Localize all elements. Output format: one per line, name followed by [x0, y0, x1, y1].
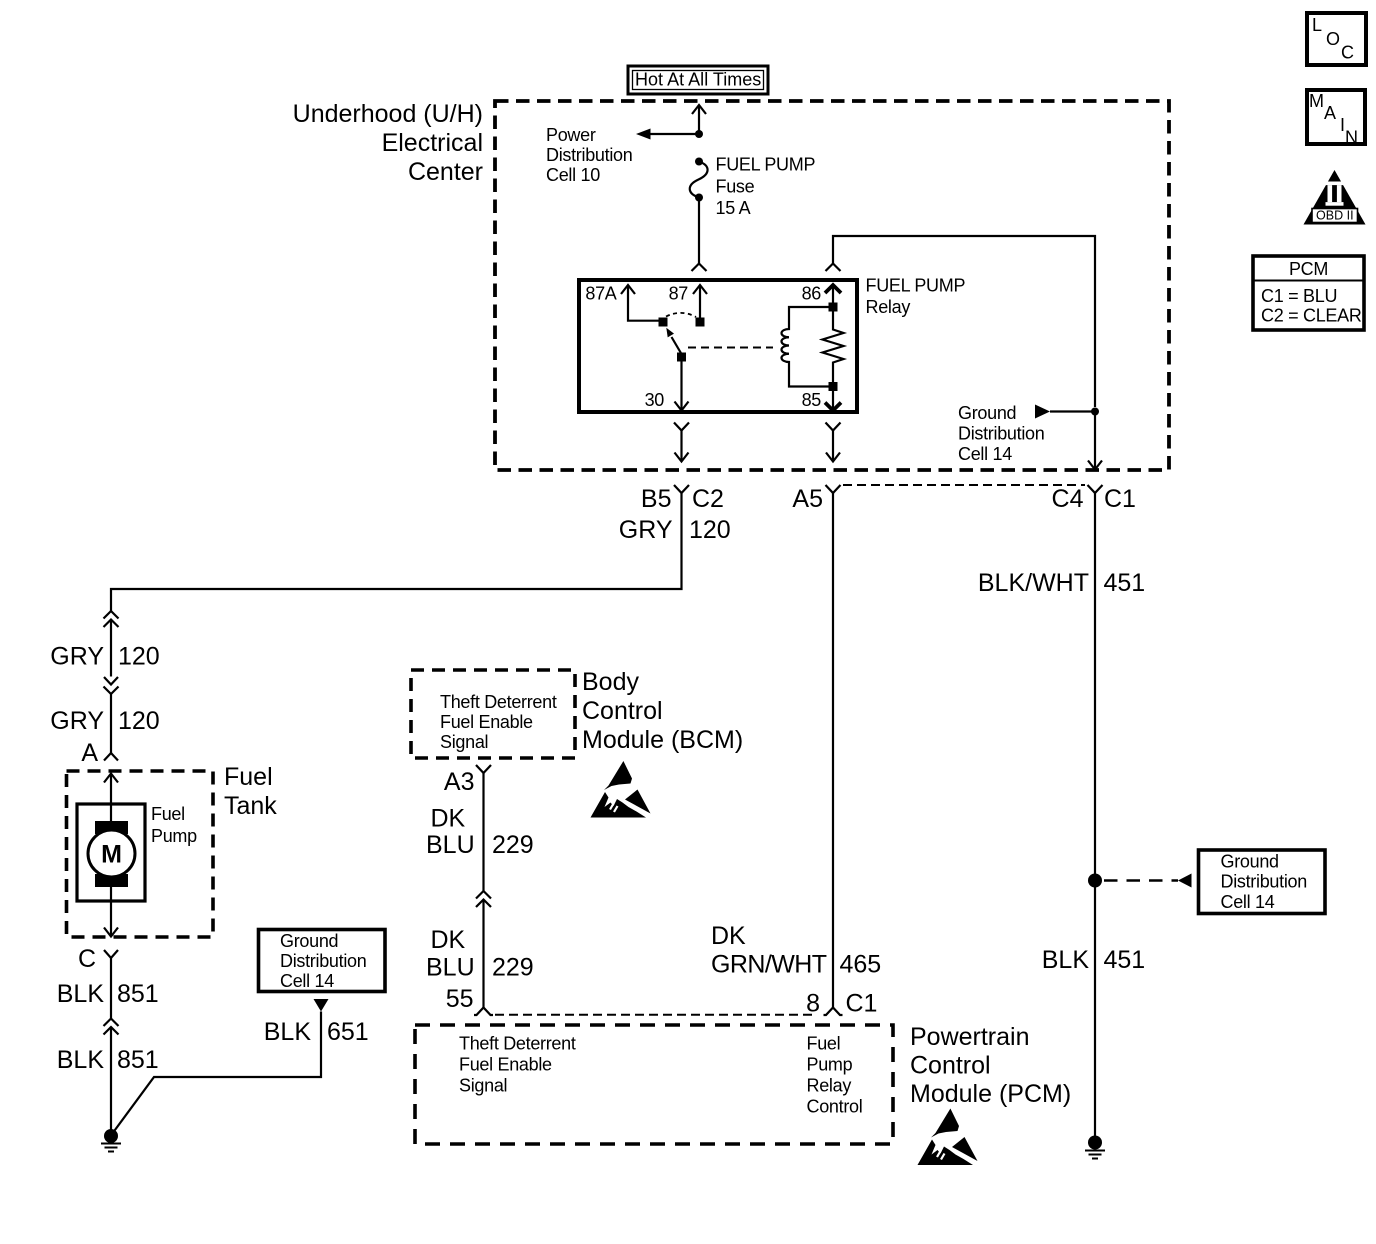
- connector row dashed line (PCM top): [495, 1014, 812, 1016]
- svg-text:30: 30: [645, 390, 665, 410]
- svg-text:651: 651: [327, 1018, 369, 1046]
- relay pin 86: [802, 284, 841, 304]
- svg-text:15 A: 15 A: [716, 198, 751, 218]
- svg-text:Fuel: Fuel: [807, 1034, 841, 1054]
- connector 8 / C1 (PCM): [806, 990, 877, 1018]
- wire: BLK 651 to pump ground: [112, 1012, 321, 1135]
- svg-text:Distribution: Distribution: [280, 951, 366, 971]
- svg-text:55: 55: [446, 985, 474, 1013]
- node: ground distribution junction: [1091, 408, 1099, 416]
- svg-text:120: 120: [118, 707, 160, 735]
- wire: tank feed arrow (into tank): [104, 774, 118, 822]
- box: BCM Theft Deterrent Fuel Enable Signal (dashed): [411, 670, 575, 758]
- arrow: ground distribution feed: [1035, 405, 1092, 419]
- svg-text:BLU: BLU: [426, 831, 475, 859]
- svg-text:C1 = BLU: C1 = BLU: [1261, 286, 1337, 306]
- svg-text:DK: DK: [431, 926, 466, 954]
- svg-text:C2: C2: [692, 485, 724, 513]
- svg-text:Control: Control: [582, 697, 663, 725]
- svg-text:Relay: Relay: [866, 297, 911, 317]
- wire: DK GRN/WHT 465 (A5 to PCM pin 8): [832, 493, 834, 1008]
- svg-text:Distribution: Distribution: [1221, 872, 1307, 892]
- connector row dashed line (A5 to C4): [843, 484, 1085, 486]
- splice break (BLK 851): [104, 1019, 119, 1137]
- svg-text:A5: A5: [792, 485, 823, 513]
- svg-text:FUEL PUMP: FUEL PUMP: [866, 276, 966, 296]
- svg-text:BLK/WHT: BLK/WHT: [978, 569, 1089, 597]
- arrow: from left GD box down: [314, 999, 329, 1012]
- splice break (DK BLU 229): [476, 891, 491, 1008]
- label: GRY 120 (left column upper): [50, 643, 159, 671]
- svg-text:87A: 87A: [585, 284, 616, 304]
- svg-text:Cell 14: Cell 14: [958, 444, 1012, 464]
- label: BLK 851 (upper): [57, 980, 159, 1008]
- fuse: FUEL PUMP Fuse 15 A: [690, 158, 708, 202]
- label: Fuel Pump: [151, 804, 197, 846]
- wire: junction down to C4 connector: [1088, 412, 1102, 470]
- svg-text:Ground: Ground: [958, 403, 1016, 423]
- svg-text:C4: C4: [1052, 485, 1084, 513]
- wire: pump to tank bottom (arrow down): [104, 887, 118, 937]
- svg-text:Cell 14: Cell 14: [280, 971, 334, 991]
- svg-text:85: 85: [802, 390, 822, 410]
- svg-text:Fuel Enable: Fuel Enable: [440, 712, 533, 732]
- wire: DK BLU 229 upper: [482, 773, 484, 891]
- svg-text:Powertrain: Powertrain: [910, 1023, 1030, 1051]
- svg-text:Cell 14: Cell 14: [1221, 892, 1275, 912]
- fuel pump box: [77, 804, 145, 901]
- svg-text:PCM: PCM: [1289, 259, 1328, 279]
- svg-text:Module (BCM): Module (BCM): [582, 726, 743, 754]
- label: GRY 120 (below B5): [619, 516, 731, 544]
- connector A (fuel tank): [81, 739, 118, 767]
- label: DK BLU 229 (upper): [426, 805, 534, 860]
- label: Ground Distribution Cell 14 (inside U/H box): [958, 403, 1044, 464]
- label: Powertrain Control Module (PCM): [910, 1023, 1071, 1108]
- svg-text:C1: C1: [1104, 485, 1136, 513]
- svg-text:DK: DK: [711, 922, 746, 950]
- svg-text:Theft Deterrent: Theft Deterrent: [459, 1034, 576, 1054]
- box: Hot At All Times: [628, 66, 768, 94]
- label: Underhood (U/H) Electrical Center: [293, 100, 483, 186]
- relay switch link (dashed line to coil): [688, 347, 773, 349]
- svg-text:L: L: [1312, 15, 1322, 35]
- connector C4 / C1: [1052, 485, 1136, 513]
- wire: relay pin 85 down to A5: [826, 423, 841, 462]
- wire: fuse to relay pin 87: [692, 198, 707, 272]
- label: Power Distribution Cell 10: [546, 125, 632, 185]
- symbol: LOC: [1307, 13, 1366, 65]
- svg-text:M: M: [101, 841, 122, 869]
- connector A5: [792, 485, 840, 513]
- label: FUEL PUMP Relay: [866, 276, 966, 318]
- svg-text:120: 120: [689, 516, 731, 544]
- wire: GRY 120 from B5 down-left: [111, 493, 682, 611]
- svg-text:Tank: Tank: [224, 792, 277, 820]
- svg-text:86: 86: [802, 284, 822, 304]
- box: Ground Distribution Cell 14 (left): [259, 930, 386, 992]
- svg-text:A3: A3: [444, 768, 475, 796]
- svg-text:GRY: GRY: [50, 643, 104, 671]
- inline connector (GRY 120): [104, 677, 119, 748]
- svg-text:Body: Body: [582, 668, 639, 696]
- svg-text:87: 87: [669, 284, 689, 304]
- svg-text:Fuel: Fuel: [151, 804, 185, 824]
- svg-text:Fuel Enable: Fuel Enable: [459, 1055, 552, 1075]
- label: DK GRN/WHT 465: [711, 922, 881, 979]
- svg-text:BLK: BLK: [57, 1046, 105, 1074]
- relay pin 85: [802, 390, 841, 411]
- svg-text:M: M: [1309, 91, 1324, 111]
- relay coil: [782, 307, 830, 387]
- svg-text:229: 229: [492, 831, 534, 859]
- label: FUEL PUMP Fuse 15 A: [716, 155, 816, 219]
- svg-text:A: A: [1324, 103, 1336, 123]
- svg-text:851: 851: [117, 1046, 159, 1074]
- svg-text:851: 851: [117, 980, 159, 1008]
- svg-text:GRY: GRY: [50, 707, 104, 735]
- svg-text:Distribution: Distribution: [958, 424, 1044, 444]
- svg-text:Ground: Ground: [280, 931, 338, 951]
- label: Fuel Tank: [224, 763, 277, 820]
- label: BLK/WHT 451: [978, 569, 1145, 597]
- svg-text:Control: Control: [807, 1097, 863, 1117]
- svg-text:Signal: Signal: [440, 732, 488, 752]
- box: Underhood (U/H) Electrical Center (dashed): [495, 101, 1169, 470]
- splice break (GRY 120 upper): [104, 611, 119, 677]
- svg-text:C1: C1: [846, 990, 878, 1018]
- svg-text:Ground: Ground: [1221, 852, 1279, 872]
- dashed feed to Ground Distribution Cell 14 (right): [1104, 874, 1192, 888]
- connector A3 (BCM): [444, 765, 491, 796]
- svg-text:Fuse: Fuse: [716, 177, 755, 197]
- svg-text:Signal: Signal: [459, 1076, 507, 1096]
- svg-text:Pump: Pump: [807, 1055, 853, 1075]
- symbol: MAIN: [1307, 90, 1365, 148]
- svg-text:8: 8: [806, 990, 820, 1018]
- svg-text:BLK: BLK: [1042, 946, 1090, 974]
- svg-text:465: 465: [840, 951, 882, 979]
- svg-text:Electrical: Electrical: [382, 129, 483, 157]
- svg-text:I: I: [1340, 115, 1345, 135]
- connector B5 / C2: [641, 485, 724, 513]
- svg-text:O: O: [1326, 29, 1340, 49]
- node: fuse feed junction: [695, 130, 703, 138]
- svg-text:120: 120: [118, 643, 160, 671]
- wire: BLK/WHT 451 down right side: [1094, 493, 1096, 1136]
- svg-text:DK: DK: [431, 805, 466, 833]
- legend box: PCM connectors: [1253, 256, 1364, 330]
- symbol: OBD II: [1304, 170, 1366, 225]
- svg-text:C: C: [78, 945, 96, 973]
- node: coil bottom junction: [829, 382, 838, 391]
- svg-text:451: 451: [1104, 946, 1146, 974]
- svg-text:OBD II: OBD II: [1316, 209, 1354, 223]
- wire: 86 feed from ground distribution (top run): [826, 236, 1096, 407]
- label: BLK 651: [264, 1018, 369, 1046]
- svg-text:FUEL PUMP: FUEL PUMP: [716, 155, 816, 175]
- svg-text:C2 = CLEAR: C2 = CLEAR: [1261, 306, 1362, 326]
- svg-text:Underhood (U/H): Underhood (U/H): [293, 100, 483, 128]
- motor M (fuel pump): [88, 821, 135, 887]
- svg-text:Theft Deterrent: Theft Deterrent: [440, 692, 557, 712]
- relay switch: dashed arc 87A to 87: [666, 313, 696, 317]
- svg-text:BLK: BLK: [57, 980, 105, 1008]
- svg-text:N: N: [1345, 128, 1358, 148]
- svg-text:Relay: Relay: [807, 1076, 852, 1096]
- ground: fuel pump ground G: [101, 1129, 121, 1152]
- svg-text:GRN/WHT: GRN/WHT: [711, 951, 827, 979]
- box: PCM (dashed) Theft Deterrent / Fuel Pump Relay Control: [415, 1025, 893, 1144]
- svg-text:B5: B5: [641, 485, 672, 513]
- ESD symbol (PCM): [918, 1109, 978, 1166]
- relay switch armature (movable contact from pin 30): [666, 328, 686, 362]
- svg-text:451: 451: [1104, 569, 1146, 597]
- node: ground splice (right): [1088, 874, 1102, 888]
- wire: power distribution branch (arrow left): [636, 129, 699, 140]
- node: coil top junction: [829, 303, 838, 312]
- wire: battery feed into U/H center: [692, 105, 706, 134]
- svg-text:BLU: BLU: [426, 954, 475, 982]
- svg-text:Center: Center: [408, 158, 483, 186]
- relay pin 30: [645, 362, 689, 411]
- svg-text:Control: Control: [910, 1052, 991, 1080]
- svg-text:Pump: Pump: [151, 826, 197, 846]
- svg-text:Power: Power: [546, 125, 596, 145]
- connector 55 (PCM): [446, 985, 493, 1015]
- label: BLK 851 (lower): [57, 1046, 159, 1074]
- label: BLK 451: [1042, 946, 1145, 974]
- svg-text:GRY: GRY: [619, 516, 673, 544]
- ESD symbol (BCM): [591, 761, 651, 818]
- svg-text:229: 229: [492, 954, 534, 982]
- svg-text:Module (PCM): Module (PCM): [910, 1080, 1071, 1108]
- svg-text:Distribution: Distribution: [546, 145, 632, 165]
- relay pin 87: [669, 284, 707, 327]
- connector C (fuel tank bottom): [78, 945, 118, 1018]
- relay box: FUEL PUMP Relay: [579, 280, 857, 412]
- box: Ground Distribution Cell 14 (right): [1199, 850, 1326, 914]
- label: Body Control Module (BCM): [582, 668, 743, 754]
- relay pin 87A: [585, 284, 667, 327]
- svg-text:Cell 10: Cell 10: [546, 165, 600, 185]
- svg-text:BLK: BLK: [264, 1018, 312, 1046]
- label: DK BLU 229 (lower): [426, 926, 534, 982]
- box: Fuel Tank (dashed): [67, 771, 214, 937]
- relay resistor (across coil): [823, 311, 844, 382]
- wire: relay pin 30 down to B5: [674, 423, 689, 462]
- ground: PCM ground: [1085, 1136, 1105, 1159]
- svg-text:Fuel: Fuel: [224, 763, 273, 791]
- label: GRY 120 (left column lower): [50, 707, 159, 735]
- svg-text:A: A: [81, 739, 98, 767]
- svg-text:C: C: [1341, 43, 1354, 63]
- svg-text:Hot At All Times: Hot At All Times: [635, 70, 761, 90]
